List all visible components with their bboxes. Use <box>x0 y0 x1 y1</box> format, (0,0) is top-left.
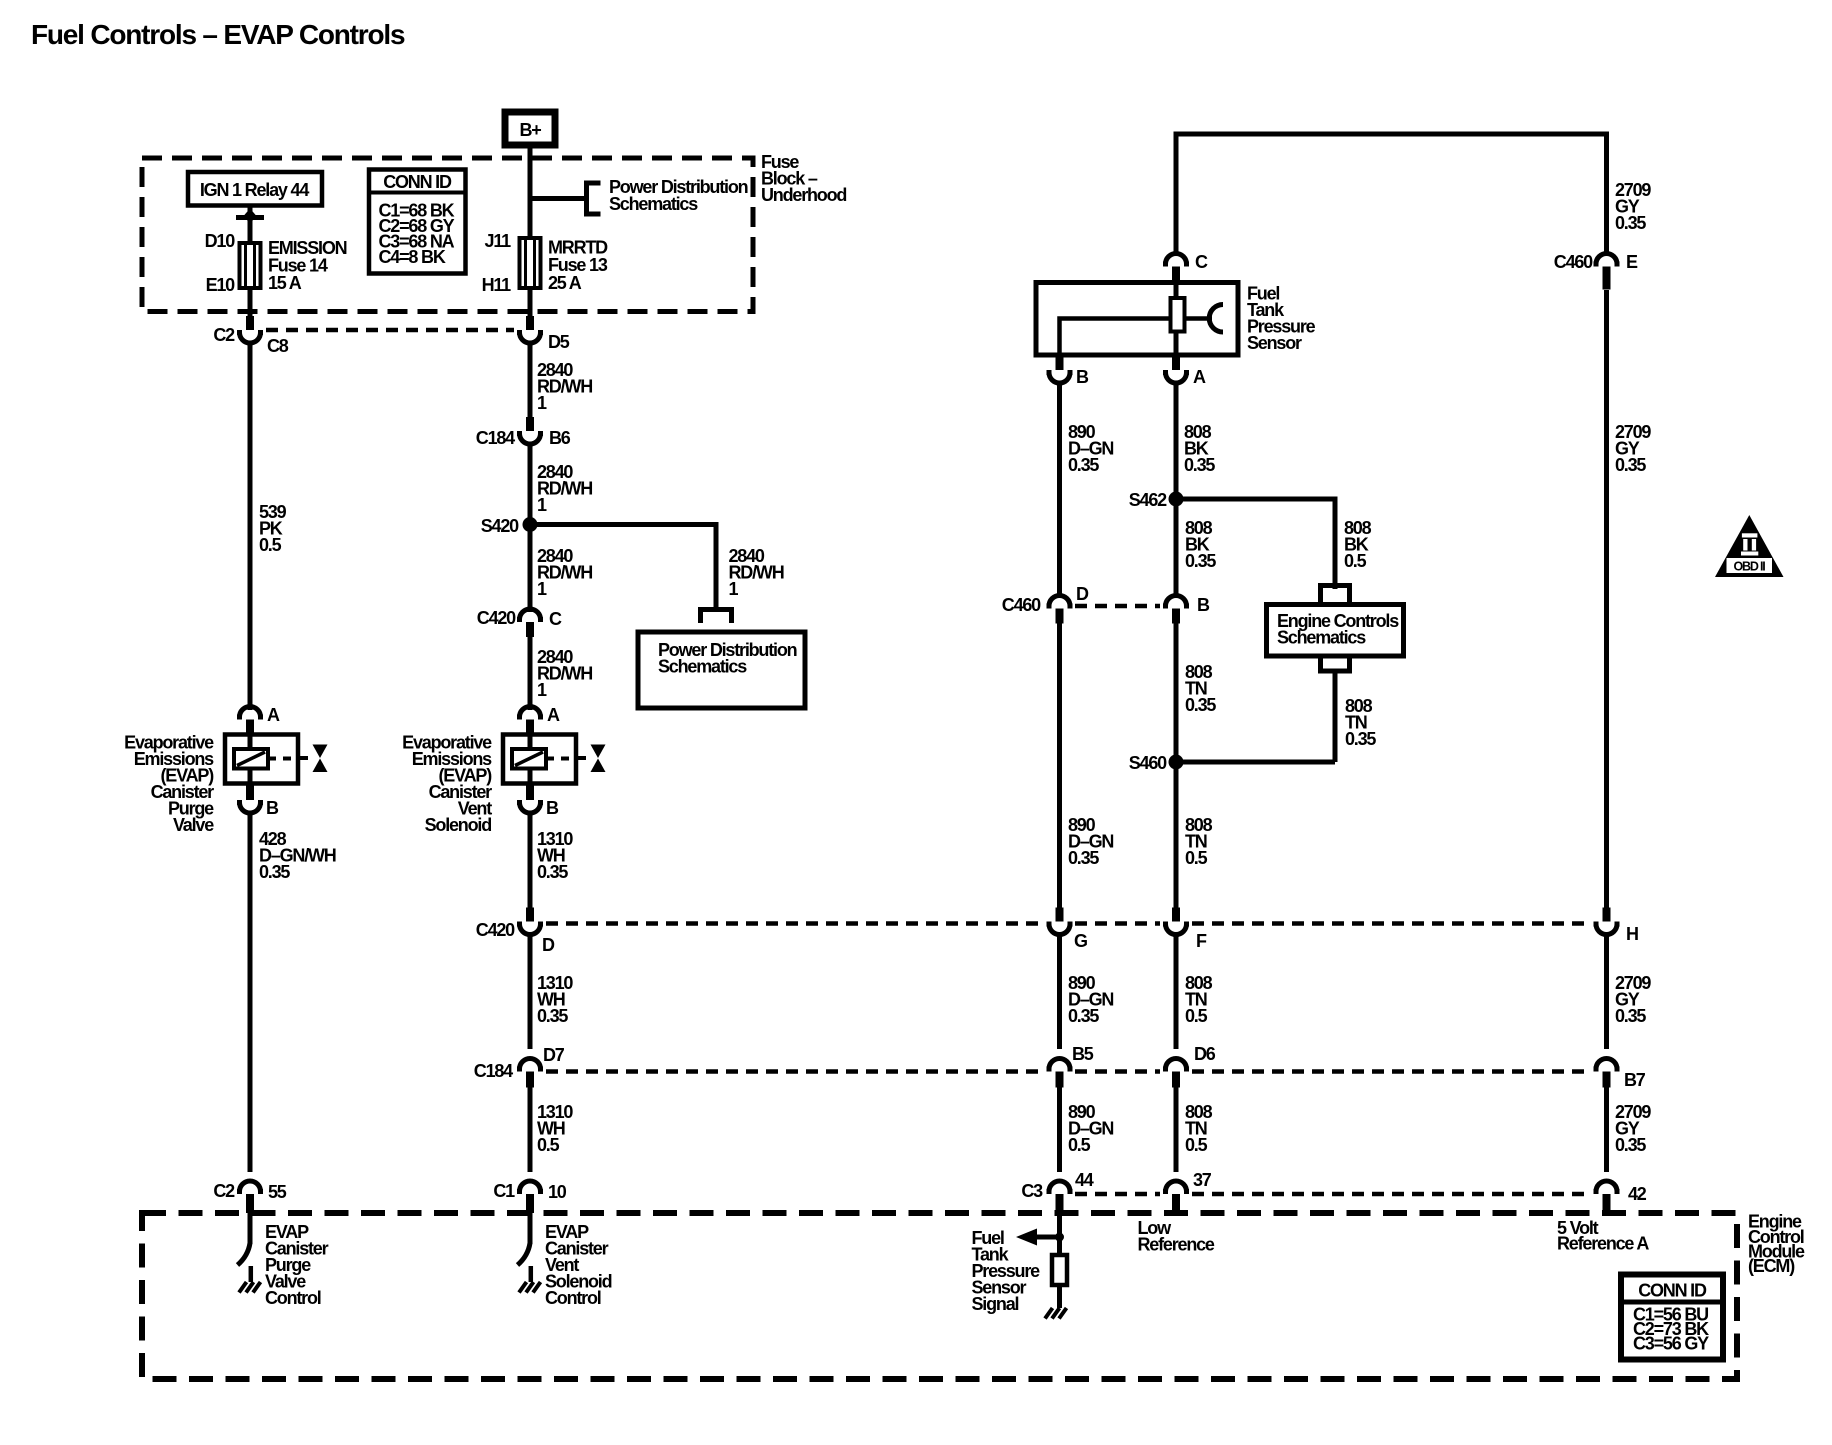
svg-text:C4=8 BK: C4=8 BK <box>379 247 446 267</box>
solenoid EVAP canister purge valve <box>225 735 298 784</box>
svg-text:(ECM): (ECM) <box>1748 1256 1795 1276</box>
wire C420 D to C184 D7 <box>528 934 533 1049</box>
svg-text:0.5: 0.5 <box>1068 1135 1091 1155</box>
svg-text:B6: B6 <box>549 428 571 448</box>
wire 428 D-GN/WH to ECM <box>248 813 253 1173</box>
svg-text:E: E <box>1626 252 1638 272</box>
dashed mate line 37 to 42 <box>1192 1192 1590 1197</box>
svg-text:Signal: Signal <box>972 1294 1019 1314</box>
svg-text:C2: C2 <box>213 1181 235 1201</box>
svg-text:A: A <box>267 705 280 725</box>
wire D7 to C1 10 <box>528 1088 533 1173</box>
symbol bracket above Power Distribution Schematics box <box>701 610 732 624</box>
fuse block - underhood dashed box <box>142 158 753 312</box>
svg-text:Fuel Controls – EVAP Controls: Fuel Controls – EVAP Controls <box>31 19 405 50</box>
connector C460 D <box>1047 596 1073 607</box>
svg-text:37: 37 <box>1193 1170 1212 1190</box>
svg-text:D5: D5 <box>548 332 570 352</box>
connector C420 D <box>526 908 534 922</box>
svg-text:S420: S420 <box>481 516 519 536</box>
svg-text:B: B <box>1197 595 1210 615</box>
wire resistor to ground <box>1057 1285 1062 1308</box>
svg-text:Valve: Valve <box>173 815 214 835</box>
wire S420 branch to power distribution <box>530 525 716 610</box>
svg-text:B5: B5 <box>1072 1044 1094 1064</box>
solenoid EVAP canister vent solenoid <box>503 735 576 784</box>
connector C1 pin 10 <box>517 1181 543 1192</box>
svg-text:0.35: 0.35 <box>1615 213 1646 233</box>
dashed mate line G to F <box>1075 921 1160 926</box>
relay IGN 1 Relay 44 box <box>188 172 322 206</box>
connector D5 <box>526 316 534 330</box>
wire 1310 WH to C420 D <box>528 813 533 909</box>
svg-text:0.35: 0.35 <box>1615 455 1646 475</box>
terminal tick and arrow at relay output <box>236 215 264 220</box>
wire 539 PK to purge valve <box>248 343 253 711</box>
wire EMISSION fuse to connector C2 <box>248 288 253 317</box>
box Engine Controls Schematics <box>1267 605 1404 657</box>
splice S462 <box>1169 492 1184 507</box>
svg-text:Solenoid: Solenoid <box>425 815 492 835</box>
svg-text:0.5: 0.5 <box>1185 1135 1208 1155</box>
svg-text:B: B <box>266 798 279 818</box>
dashed mate line F to H <box>1192 921 1590 926</box>
connector D6 <box>1163 1059 1189 1070</box>
svg-text:J11: J11 <box>485 231 512 251</box>
wire B5 to C3 44 <box>1057 1088 1062 1173</box>
valve symbol (purge) <box>300 756 314 760</box>
svg-text:1: 1 <box>729 579 739 599</box>
symbol bracket above Engine Controls Schematics box <box>1321 586 1350 604</box>
symbol bracket below Engine Controls Schematics box <box>1321 658 1350 671</box>
svg-text:Schematics: Schematics <box>658 657 747 677</box>
wire S462 branch to engine controls schematics <box>1176 499 1335 589</box>
wire 2840 RD/WH to C184 <box>528 343 533 419</box>
splice S420 <box>523 517 538 532</box>
svg-text:C420: C420 <box>476 920 515 940</box>
box Power Distribution Schematics <box>638 632 805 708</box>
connector F <box>1172 908 1180 922</box>
svg-text:H: H <box>1626 924 1638 944</box>
arrow fuel tank pressure sensor signal <box>1034 1235 1060 1240</box>
svg-text:B+: B+ <box>519 120 541 140</box>
dashed mate line C2 to D5 <box>266 328 514 333</box>
wire C420 to EVAP vent solenoid <box>528 637 533 710</box>
wire F to D6 <box>1174 934 1179 1049</box>
ground (vent driver) <box>519 1282 541 1293</box>
fuse F14 EMISSION 15A <box>240 243 261 288</box>
svg-text:0.35: 0.35 <box>537 862 568 882</box>
svg-text:Schematics: Schematics <box>609 194 698 214</box>
svg-text:55: 55 <box>268 1182 287 1202</box>
dashed mate line D to B <box>1075 604 1160 609</box>
wire S460 down to F <box>1174 762 1179 908</box>
svg-text:25 A: 25 A <box>548 273 582 293</box>
sensor element <box>1174 283 1179 299</box>
svg-text:0.5: 0.5 <box>537 1135 560 1155</box>
svg-text:D10: D10 <box>205 231 236 251</box>
svg-text:0.35: 0.35 <box>259 862 290 882</box>
connector H <box>1603 908 1611 922</box>
svg-text:C: C <box>1195 252 1208 272</box>
svg-text:D7: D7 <box>543 1045 565 1065</box>
conn id table (fuse block) <box>369 170 466 274</box>
wire D6 to 37 <box>1174 1088 1179 1173</box>
connector sensor pin A <box>1172 355 1180 370</box>
wire 44 into ECM <box>1057 1213 1062 1255</box>
connector pin 37 <box>1163 1181 1189 1192</box>
wire relay to EMISSION fuse <box>248 206 253 246</box>
ground (sensor signal) <box>1045 1308 1067 1319</box>
svg-text:IGN 1 Relay 44: IGN 1 Relay 44 <box>200 180 309 200</box>
svg-text:0.35: 0.35 <box>1184 455 1215 475</box>
svg-text:D6: D6 <box>1194 1044 1216 1064</box>
wire MRRTD fuse to connector D5 <box>528 288 533 317</box>
svg-text:0.5: 0.5 <box>1344 551 1367 571</box>
dashed mate line 44 to 37 <box>1075 1192 1160 1197</box>
svg-text:0.5: 0.5 <box>1185 1006 1208 1026</box>
svg-text:0.35: 0.35 <box>1185 551 1216 571</box>
svg-text:0.5: 0.5 <box>1185 848 1208 868</box>
svg-text:C3=56 GY: C3=56 GY <box>1633 1334 1709 1354</box>
wire top interconnect C to E <box>1176 134 1607 256</box>
svg-text:0.35: 0.35 <box>1615 1135 1646 1155</box>
svg-text:Control: Control <box>265 1288 321 1308</box>
svg-text:0.35: 0.35 <box>1345 729 1376 749</box>
svg-text:44: 44 <box>1075 1170 1094 1190</box>
svg-text:0.35: 0.35 <box>1068 848 1099 868</box>
wire S460 branch join <box>1176 760 1335 765</box>
svg-text:C184: C184 <box>476 428 515 448</box>
svg-text:D: D <box>1076 584 1089 604</box>
valve symbol (vent) <box>578 756 592 760</box>
resistor (ECM pull-up) <box>1052 1255 1067 1285</box>
svg-text:CONN ID: CONN ID <box>383 172 452 192</box>
dashed mate line D6 to B7 <box>1192 1069 1590 1074</box>
wire G to B5 <box>1057 934 1062 1049</box>
connector C460 B <box>1163 596 1189 607</box>
sensor internal wiring <box>1060 319 1171 356</box>
svg-text:E10: E10 <box>206 275 236 295</box>
battery feed B+ <box>505 112 555 145</box>
svg-text:S460: S460 <box>1129 753 1167 773</box>
connector purge valve pin A <box>237 707 263 718</box>
svg-text:B: B <box>1076 367 1089 387</box>
driver switch EVAP canister purge valve control <box>248 1213 253 1244</box>
svg-text:1: 1 <box>537 579 547 599</box>
svg-text:C184: C184 <box>474 1061 513 1081</box>
svg-text:C2: C2 <box>213 325 235 345</box>
wire sensor A to splice S462 <box>1174 383 1179 500</box>
svg-text:S462: S462 <box>1129 490 1167 510</box>
wire B+ down to MRRTD fuse <box>528 148 533 240</box>
wire engine controls schematics to S460 <box>1333 671 1338 762</box>
svg-text:Schematics: Schematics <box>1277 628 1366 648</box>
splice S460 <box>1169 755 1184 770</box>
wire sensor B branch down to G <box>1057 623 1062 908</box>
ground (purge driver) <box>239 1282 261 1293</box>
svg-text:0.35: 0.35 <box>1615 1006 1646 1026</box>
svg-text:G: G <box>1074 931 1087 951</box>
svg-text:0.35: 0.35 <box>1068 455 1099 475</box>
wire sensor B to C460 D <box>1057 383 1062 599</box>
svg-text:C8: C8 <box>267 336 289 356</box>
svg-text:C420: C420 <box>477 608 516 628</box>
wire C460 B to S460 <box>1174 624 1179 778</box>
connector pin 42 <box>1594 1181 1620 1192</box>
svg-text:Underhood: Underhood <box>761 185 846 205</box>
svg-text:B7: B7 <box>1624 1070 1646 1090</box>
svg-text:CONN ID: CONN ID <box>1638 1281 1707 1301</box>
driver switch EVAP canister vent solenoid control <box>528 1213 533 1244</box>
svg-text:0.35: 0.35 <box>1068 1006 1099 1026</box>
svg-text:A: A <box>547 705 560 725</box>
dashed mate line D7 to B5 <box>546 1069 1043 1074</box>
symbol bracket to Power Distribution Schematics <box>587 183 601 214</box>
svg-text:B: B <box>546 798 559 818</box>
connector purge valve pin B <box>246 784 254 800</box>
wire S462 to C460 B <box>1174 499 1179 598</box>
svg-text:C460: C460 <box>1002 595 1041 615</box>
svg-text:A: A <box>1193 367 1206 387</box>
connector vent solenoid pin B <box>526 784 534 800</box>
dashed mate line B5 to D6 <box>1075 1069 1160 1074</box>
svg-text:15 A: 15 A <box>268 273 302 293</box>
svg-text:Reference A: Reference A <box>1557 1234 1649 1254</box>
connector B7 <box>1594 1059 1620 1070</box>
svg-text:H11: H11 <box>482 275 512 295</box>
connector C3 pin 44 <box>1047 1181 1073 1192</box>
svg-text:OBD II: OBD II <box>1734 560 1766 574</box>
conn id table (ECM) <box>1621 1275 1723 1360</box>
svg-text:C3: C3 <box>1021 1181 1043 1201</box>
wire C184 to splice S420 <box>528 444 533 525</box>
svg-text:1: 1 <box>537 393 547 413</box>
svg-text:Sensor: Sensor <box>1247 333 1302 353</box>
fuse F13 MRRTD 25A <box>520 238 541 288</box>
connector B5 <box>1047 1059 1073 1070</box>
svg-text:0.35: 0.35 <box>537 1006 568 1026</box>
svg-text:0.5: 0.5 <box>259 535 282 555</box>
svg-text:Reference: Reference <box>1138 1235 1215 1255</box>
svg-text:C: C <box>549 609 562 629</box>
svg-text:C1: C1 <box>493 1181 515 1201</box>
connector C184 B6 <box>526 417 534 431</box>
svg-text:10: 10 <box>548 1182 567 1202</box>
svg-text:1: 1 <box>537 680 547 700</box>
svg-text:F: F <box>1196 931 1207 951</box>
connector C2 pin 55 <box>237 1181 263 1192</box>
wire H to B7 <box>1604 934 1609 1049</box>
connector C184 D7 <box>517 1059 543 1070</box>
connector C420 C <box>517 609 543 620</box>
sensor port symbol <box>1185 316 1213 321</box>
svg-text:D: D <box>542 935 555 955</box>
wire branch to power distribution bracket <box>530 196 587 201</box>
wire B7 to 42 <box>1604 1088 1609 1173</box>
svg-text:Control: Control <box>545 1288 601 1308</box>
svg-text:0.35: 0.35 <box>1185 695 1216 715</box>
connector G <box>1056 908 1064 922</box>
connector C460 E <box>1594 254 1620 264</box>
svg-text:Fuse 13: Fuse 13 <box>548 255 608 275</box>
svg-text:42: 42 <box>1628 1184 1647 1204</box>
svg-text:1: 1 <box>537 495 547 515</box>
dashed mate line C420 D to G <box>546 921 1043 926</box>
connector C2 C8 <box>246 316 254 330</box>
wire S420 to connector C420 C <box>528 525 533 613</box>
OBD II symbol <box>1715 515 1784 577</box>
connector sensor pin C <box>1163 254 1189 264</box>
svg-text:C460: C460 <box>1554 252 1593 272</box>
connector sensor pin B <box>1056 355 1064 370</box>
wire 2709 GY down to H <box>1604 290 1609 908</box>
engine control module dashed box <box>142 1213 1737 1379</box>
fuel tank pressure sensor box <box>1036 283 1238 356</box>
connector vent solenoid pin A <box>517 707 543 718</box>
